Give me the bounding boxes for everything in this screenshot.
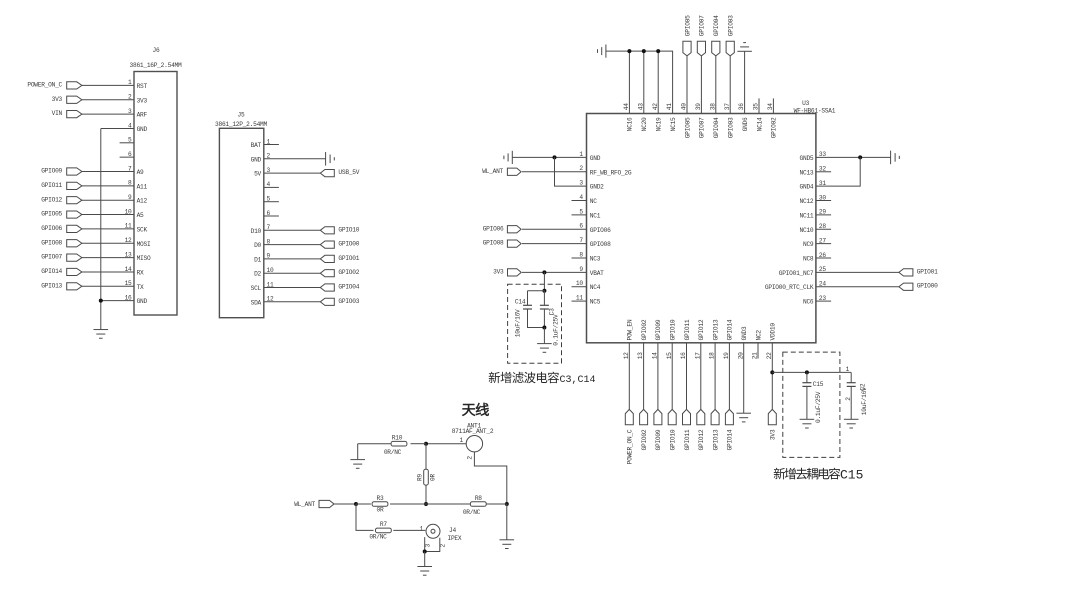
svg-text:9: 9 — [579, 266, 583, 273]
svg-text:NC11: NC11 — [800, 212, 814, 219]
svg-text:WL_ANT: WL_ANT — [294, 501, 315, 508]
svg-text:ARF: ARF — [137, 112, 148, 119]
svg-text:A11: A11 — [137, 183, 148, 190]
svg-text:1: 1 — [420, 526, 424, 533]
svg-text:GPIO10: GPIO10 — [338, 226, 359, 233]
svg-text:VIN: VIN — [52, 110, 63, 117]
svg-text:C3,C14: C3,C14 — [560, 375, 596, 386]
svg-text:D0: D0 — [254, 242, 261, 249]
svg-text:C15: C15 — [813, 381, 824, 388]
svg-text:GPIO05: GPIO05 — [684, 117, 691, 138]
svg-text:NC8: NC8 — [803, 255, 814, 262]
svg-text:5: 5 — [579, 208, 583, 215]
svg-text:POWER_ON_C: POWER_ON_C — [27, 82, 62, 89]
svg-text:NC4: NC4 — [590, 284, 601, 291]
svg-text:GPIO06: GPIO06 — [590, 227, 611, 234]
svg-text:0R: 0R — [377, 507, 384, 514]
svg-text:GPIO04: GPIO04 — [713, 117, 720, 138]
svg-text:GPIO03: GPIO03 — [338, 298, 359, 305]
svg-text:NC5: NC5 — [590, 299, 601, 306]
svg-text:3: 3 — [579, 180, 583, 187]
svg-text:VBAT: VBAT — [590, 270, 604, 277]
svg-text:TX: TX — [137, 284, 144, 291]
svg-text:1: 1 — [579, 151, 583, 158]
svg-text:GND6: GND6 — [742, 117, 749, 131]
svg-text:GPIO02: GPIO02 — [641, 319, 648, 340]
svg-text:NC3: NC3 — [590, 255, 601, 262]
svg-text:RST: RST — [137, 83, 148, 90]
svg-text:3861_16P_2.54MM: 3861_16P_2.54MM — [130, 62, 182, 69]
svg-text:GPIO04: GPIO04 — [713, 15, 720, 36]
svg-text:NC2: NC2 — [755, 330, 762, 341]
svg-text:1: 1 — [846, 366, 850, 373]
svg-text:GPIO07: GPIO07 — [699, 15, 706, 36]
svg-text:RX: RX — [137, 269, 144, 276]
svg-text:GPIO08: GPIO08 — [590, 241, 611, 248]
svg-text:0R/NC: 0R/NC — [463, 509, 481, 516]
svg-text:A12: A12 — [137, 198, 148, 205]
svg-text:GPIO02: GPIO02 — [771, 117, 778, 138]
svg-text:GPIO07: GPIO07 — [699, 117, 706, 138]
svg-text:2: 2 — [467, 456, 474, 460]
svg-text:GPIO14: GPIO14 — [41, 268, 62, 275]
svg-text:GPIO04: GPIO04 — [338, 284, 359, 291]
svg-text:POW_EN: POW_EN — [627, 319, 634, 340]
svg-text:GPIO06: GPIO06 — [483, 225, 504, 232]
svg-text:POWER_ON_C: POWER_ON_C — [627, 429, 634, 464]
svg-text:GND: GND — [137, 126, 148, 133]
svg-text:GPIO03: GPIO03 — [728, 117, 735, 138]
svg-text:GPIO12: GPIO12 — [698, 429, 705, 450]
svg-text:GPIO00: GPIO00 — [338, 241, 359, 248]
svg-text:NC19: NC19 — [656, 117, 663, 131]
svg-text:0R/NC: 0R/NC — [369, 534, 387, 541]
svg-text:NC6: NC6 — [803, 299, 814, 306]
svg-text:NC20: NC20 — [641, 117, 648, 131]
svg-text:7: 7 — [579, 237, 583, 244]
svg-text:3: 3 — [424, 544, 431, 548]
svg-text:RF_WB_RFO_2G: RF_WB_RFO_2G — [590, 169, 632, 176]
svg-text:A9: A9 — [137, 169, 144, 176]
svg-text:USB_5V: USB_5V — [338, 169, 359, 176]
svg-text:SCK: SCK — [137, 226, 148, 233]
svg-text:0R: 0R — [429, 474, 436, 481]
svg-text:10uF/16V: 10uF/16V — [514, 309, 521, 337]
svg-text:J4: J4 — [449, 527, 456, 534]
svg-text:GPIO00_RTC_CLK: GPIO00_RTC_CLK — [765, 284, 814, 291]
svg-text:NC10: NC10 — [800, 227, 814, 234]
svg-text:GND5: GND5 — [800, 155, 814, 162]
svg-text:NC13: NC13 — [800, 169, 814, 176]
svg-text:10: 10 — [576, 280, 583, 287]
svg-text:C3: C3 — [549, 308, 556, 315]
svg-text:3V3: 3V3 — [770, 429, 777, 440]
svg-text:3V3: 3V3 — [52, 96, 63, 103]
svg-text:VDD10: VDD10 — [770, 323, 777, 341]
svg-text:6: 6 — [579, 223, 583, 230]
svg-text:NC14: NC14 — [756, 117, 763, 131]
svg-text:GPIO10: GPIO10 — [670, 319, 677, 340]
svg-text:D10: D10 — [251, 228, 262, 235]
svg-text:GPIO13: GPIO13 — [41, 282, 62, 289]
svg-text:GPIO14: GPIO14 — [727, 429, 734, 450]
svg-text:11: 11 — [576, 295, 583, 302]
svg-text:10uF/16V: 10uF/16V — [861, 387, 868, 415]
svg-text:MOSI: MOSI — [137, 241, 151, 248]
svg-text:A5: A5 — [137, 212, 144, 219]
svg-text:GPIO05: GPIO05 — [41, 211, 62, 218]
svg-text:GND: GND — [590, 155, 601, 162]
svg-text:GPIO02: GPIO02 — [641, 429, 648, 450]
svg-text:NC12: NC12 — [800, 198, 814, 205]
svg-text:GPIO01: GPIO01 — [917, 268, 938, 275]
svg-text:GPIO13: GPIO13 — [712, 429, 719, 450]
svg-text:D2: D2 — [254, 271, 261, 278]
svg-text:WL_ANT: WL_ANT — [482, 168, 503, 175]
svg-text:J5: J5 — [238, 112, 245, 119]
svg-text:GPIO01_NC7: GPIO01_NC7 — [779, 270, 814, 277]
svg-text:WF-HB61-SSA1: WF-HB61-SSA1 — [794, 108, 836, 115]
svg-text:GPIO11: GPIO11 — [684, 429, 691, 450]
svg-text:U3: U3 — [802, 100, 809, 107]
svg-text:4: 4 — [579, 194, 583, 201]
svg-text:C15: C15 — [840, 467, 863, 482]
svg-text:J6: J6 — [153, 47, 160, 54]
svg-text:NC: NC — [590, 198, 597, 205]
svg-text:NC1: NC1 — [590, 212, 601, 219]
svg-text:2: 2 — [439, 544, 446, 548]
svg-text:GPIO06: GPIO06 — [41, 225, 62, 232]
svg-text:GPIO09: GPIO09 — [41, 168, 62, 175]
svg-text:5V: 5V — [254, 171, 261, 178]
svg-text:R7: R7 — [380, 521, 387, 528]
svg-text:GPIO14: GPIO14 — [727, 319, 734, 340]
svg-text:D1: D1 — [254, 256, 261, 263]
svg-text:GND3: GND3 — [741, 326, 748, 340]
svg-text:GPIO05: GPIO05 — [684, 15, 691, 36]
svg-text:GPIO08: GPIO08 — [483, 240, 504, 247]
svg-text:GPIO13: GPIO13 — [712, 319, 719, 340]
svg-text:GPIO02: GPIO02 — [338, 269, 359, 276]
svg-text:SCL: SCL — [251, 285, 262, 292]
svg-text:GPIO10: GPIO10 — [670, 429, 677, 450]
svg-text:NC15: NC15 — [670, 117, 677, 131]
svg-text:2: 2 — [579, 165, 583, 172]
svg-text:BAT: BAT — [251, 142, 262, 149]
svg-text:R8: R8 — [475, 495, 482, 502]
svg-text:GPIO12: GPIO12 — [41, 196, 62, 203]
svg-text:R3: R3 — [377, 495, 384, 502]
svg-text:0R/NC: 0R/NC — [384, 449, 402, 456]
svg-text:2: 2 — [845, 397, 852, 401]
svg-text:GND4: GND4 — [800, 184, 814, 191]
svg-text:GPIO01: GPIO01 — [338, 255, 359, 262]
svg-text:GPIO09: GPIO09 — [655, 429, 662, 450]
svg-text:1: 1 — [460, 437, 464, 444]
svg-text:GND: GND — [251, 156, 262, 163]
svg-text:8711AF_ANT_2: 8711AF_ANT_2 — [452, 428, 494, 435]
svg-text:GPIO03: GPIO03 — [728, 15, 735, 36]
svg-text:3V3: 3V3 — [137, 97, 148, 104]
svg-text:GND: GND — [137, 298, 148, 305]
svg-text:R10: R10 — [392, 435, 403, 442]
svg-text:GPIO09: GPIO09 — [655, 319, 662, 340]
svg-text:0.1uF/25V: 0.1uF/25V — [552, 314, 559, 346]
svg-text:GPIO12: GPIO12 — [698, 319, 705, 340]
svg-text:GND2: GND2 — [590, 184, 604, 191]
svg-text:3V3: 3V3 — [493, 268, 504, 275]
svg-text:3861_12P_2.54MM: 3861_12P_2.54MM — [215, 121, 267, 128]
svg-text:C14: C14 — [515, 299, 526, 306]
svg-text:GPIO08: GPIO08 — [41, 239, 62, 246]
svg-text:IPEX: IPEX — [448, 535, 462, 542]
svg-text:NC9: NC9 — [803, 241, 814, 248]
svg-text:GPIO11: GPIO11 — [41, 182, 62, 189]
svg-text:NC16: NC16 — [627, 117, 634, 131]
svg-text:GPIO00: GPIO00 — [917, 283, 938, 290]
svg-text:R9: R9 — [417, 474, 424, 481]
svg-text:MISO: MISO — [137, 255, 151, 262]
svg-text:8: 8 — [579, 251, 583, 258]
svg-text:GPIO07: GPIO07 — [41, 254, 62, 261]
svg-text:GPIO11: GPIO11 — [684, 319, 691, 340]
svg-text:0.1uF/25V: 0.1uF/25V — [815, 391, 822, 423]
svg-text:SDA: SDA — [251, 299, 262, 306]
